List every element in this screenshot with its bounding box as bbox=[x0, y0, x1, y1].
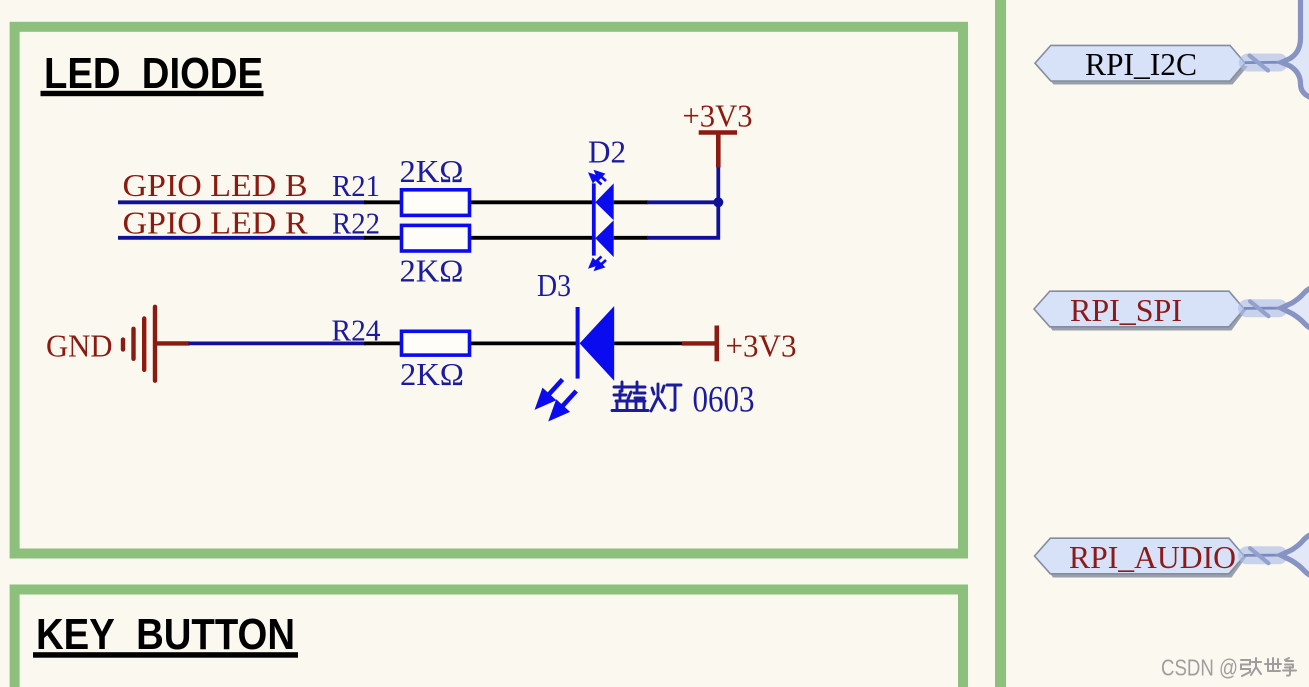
svg-text:RPI_I2C: RPI_I2C bbox=[1085, 46, 1197, 82]
resistor R21 bbox=[402, 190, 470, 216]
张 bbox=[1241, 660, 1250, 676]
port RPI_I2C wire bbox=[1245, 61, 1282, 64]
LED D2 triangle lower bbox=[595, 220, 613, 257]
pin R24 left bbox=[364, 341, 400, 345]
pin D2 right lower bbox=[614, 236, 648, 240]
wire D2 upper to node bbox=[647, 200, 720, 204]
ground symbol bars bbox=[123, 307, 155, 381]
蓝 middle bbox=[619, 391, 622, 399]
harness connector AUDIO border bbox=[1281, 534, 1309, 578]
junction node bbox=[713, 197, 723, 207]
harness connector SPI border bbox=[1281, 287, 1309, 331]
port RPI_SPI shadow bbox=[1037, 309, 1247, 331]
世 bbox=[1265, 658, 1281, 671]
LED D2 cathode bar bbox=[592, 183, 596, 255]
wire D2 lower to corner bbox=[647, 202, 718, 238]
port RPI_I2C shadow bbox=[1038, 66, 1248, 85]
wire net GPIO_LED_B bbox=[118, 200, 366, 204]
wire node to +3V3 bbox=[716, 166, 720, 204]
pin R22 right to D2 bbox=[471, 236, 593, 240]
svg-text:R24: R24 bbox=[332, 312, 381, 347]
svg-text:GPIO LED R: GPIO LED R bbox=[123, 205, 309, 241]
svg-text:GND: GND bbox=[46, 327, 113, 363]
title LED_DIODE underline bbox=[41, 91, 264, 96]
LED D3 emission arrow 2 bbox=[552, 391, 576, 417]
power +3V3 right stub bbox=[682, 341, 716, 345]
sheet frame KEY_BUTTON (green box) bbox=[15, 590, 963, 687]
svg-text:RPI_SPI: RPI_SPI bbox=[1070, 292, 1182, 328]
sheet frame LED_DIODE (green box) bbox=[15, 27, 963, 554]
resistor R24 bbox=[402, 331, 470, 355]
svg-text:2KΩ: 2KΩ bbox=[400, 153, 464, 189]
svg-text:2KΩ: 2KΩ bbox=[400, 356, 464, 392]
svg-text:2KΩ: 2KΩ bbox=[400, 252, 464, 288]
LED D3 emission arrow 1 bbox=[539, 379, 563, 405]
svg-text:R21: R21 bbox=[332, 168, 380, 203]
power +3V3 right bar bbox=[714, 326, 719, 362]
comment hanzi 灯 bbox=[651, 384, 681, 411]
LED D3 cathode bar bbox=[576, 307, 580, 379]
wire net GPIO_LED_R bbox=[118, 236, 366, 240]
svg-text:GPIO LED B: GPIO LED B bbox=[123, 167, 308, 203]
svg-text:+3V3: +3V3 bbox=[726, 328, 797, 364]
LED D3 triangle bbox=[580, 306, 615, 381]
port RPI_I2C body bbox=[1035, 45, 1245, 81]
port RPI_SPI body bbox=[1034, 291, 1244, 327]
port RPI_AUDIO slash bbox=[1250, 548, 1269, 563]
LED D2 emission arrows bottom bbox=[590, 257, 606, 270]
port RPI_SPI wire bbox=[1244, 307, 1281, 310]
pin D3 right bbox=[614, 341, 683, 345]
svg-text:CSDN @: CSDN @ bbox=[1161, 655, 1238, 681]
pin R21 right to D2 bbox=[471, 200, 593, 204]
ground stub wire bbox=[155, 341, 190, 345]
pin D2 right upper bbox=[614, 200, 648, 204]
power +3V3 bar bbox=[699, 130, 737, 135]
harness connector I2C fill bbox=[1282, 0, 1309, 98]
port RPI_AUDIO harness band bbox=[1238, 546, 1288, 564]
svg-text:D2: D2 bbox=[588, 134, 626, 170]
watermark hanzi 张世争 bbox=[1241, 658, 1296, 676]
port RPI_I2C harness band bbox=[1239, 54, 1288, 72]
灯 fire radical bbox=[657, 384, 660, 398]
svg-text:0603: 0603 bbox=[693, 380, 755, 421]
resistor R22 bbox=[402, 225, 470, 251]
蓝 grass radical bbox=[614, 386, 645, 389]
port RPI_AUDIO body bbox=[1035, 538, 1245, 574]
wire GND row bbox=[189, 341, 367, 345]
pin R21 left bbox=[364, 200, 400, 204]
harness connector AUDIO fill bbox=[1281, 534, 1309, 578]
pin R22 left bbox=[364, 236, 400, 240]
power +3V3 stem bbox=[716, 133, 721, 168]
comment 蓝灯 (hand-drawn hanzi) bbox=[612, 382, 648, 411]
pin R24 right to D3 bbox=[471, 341, 576, 345]
蓝 dish 皿 bbox=[612, 401, 648, 411]
svg-text:+3V3: +3V3 bbox=[683, 98, 753, 134]
svg-text:D3: D3 bbox=[537, 267, 571, 303]
LED D2 triangle upper bbox=[595, 183, 613, 220]
svg-text:RPI_AUDIO: RPI_AUDIO bbox=[1069, 539, 1236, 575]
port RPI_AUDIO shadow bbox=[1038, 556, 1248, 578]
sheet frame right divider bbox=[995, 0, 1006, 687]
harness connector SPI fill bbox=[1281, 287, 1309, 331]
LED D2 emission arrows top bbox=[590, 172, 606, 185]
title KEY_BUTTON underline bbox=[33, 652, 298, 658]
port RPI_AUDIO wire bbox=[1244, 554, 1281, 557]
harness connector I2C border bbox=[1282, 0, 1309, 98]
svg-text:KEY_BUTTON: KEY_BUTTON bbox=[36, 610, 295, 659]
灯 丁 bbox=[667, 384, 681, 387]
svg-text:R22: R22 bbox=[332, 206, 380, 241]
port RPI_SPI harness band bbox=[1238, 299, 1288, 317]
port RPI_SPI slash bbox=[1250, 301, 1269, 316]
port RPI_I2C slash bbox=[1250, 56, 1269, 71]
争 bbox=[1283, 658, 1296, 676]
